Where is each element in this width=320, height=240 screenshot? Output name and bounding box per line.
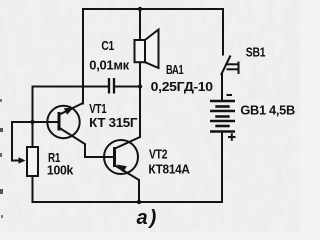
resistor R1 (variable) <box>27 147 38 176</box>
wire C1 right to junction <box>114 86 140 88</box>
svg-text:C1: C1 <box>101 38 114 53</box>
wire left drop to VT1 emitter <box>82 9 84 104</box>
wire VT1 base <box>12 121 59 123</box>
wire top rail <box>83 8 223 10</box>
transistor VT2 <box>104 137 140 202</box>
switch SB1 <box>221 56 239 76</box>
svg-text:GB1 4,5В: GB1 4,5В <box>240 103 295 118</box>
battery minus sign <box>227 94 233 96</box>
transistor VT1 emitter arrow <box>64 107 74 114</box>
svg-text:100k: 100k <box>47 163 74 178</box>
svg-text:SB1: SB1 <box>246 44 266 59</box>
wire C1 left branch: horizontal y=86.5 and vertical to R1 <box>33 87 110 148</box>
speaker BA1 <box>135 30 159 69</box>
svg-text:VT2: VT2 <box>149 147 167 162</box>
svg-text:VT1: VT1 <box>89 101 106 116</box>
transistor VT1 <box>47 103 114 157</box>
svg-text:ВА1: ВА1 <box>166 62 184 77</box>
node: C1 right / VT2 collector junction <box>138 84 142 88</box>
node: VT1 base / R1 junction <box>30 120 34 124</box>
svg-text:КТ 315Г: КТ 315Г <box>89 115 138 130</box>
node: top rail / speaker junction <box>138 7 142 11</box>
battery GB1 <box>210 101 235 132</box>
wire speaker / VT2 collector net vertical <box>139 9 141 40</box>
svg-text:а): а) <box>137 207 157 229</box>
battery plus sign <box>228 133 236 141</box>
scan specks <box>0 99 2 102</box>
wire R1 bottom to rail <box>32 176 34 202</box>
wire right rail to switch <box>222 9 224 55</box>
capacitor C1 <box>109 78 114 94</box>
transistor VT2 emitter arrow <box>117 165 127 173</box>
svg-text:КТ814А: КТ814А <box>148 161 190 176</box>
node: bottom rail / VT2 emitter junction <box>137 200 141 204</box>
wire battery to bottom rail <box>221 132 223 203</box>
wire switch to battery <box>221 75 223 101</box>
svg-text:0,01мк: 0,01мк <box>89 58 129 73</box>
wire bottom rail <box>33 201 223 203</box>
svg-text:0,25ГД-10: 0,25ГД-10 <box>151 79 213 94</box>
resistor R1 wiper arrow <box>19 157 26 164</box>
wire R1 wiper loop <box>12 122 19 161</box>
